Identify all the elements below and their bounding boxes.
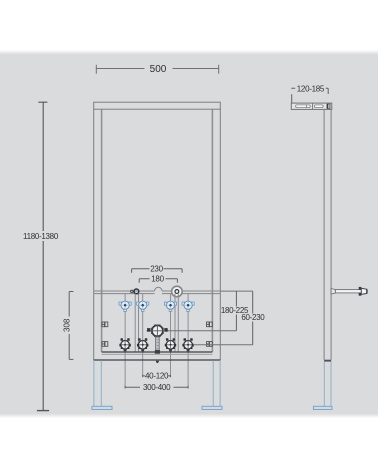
leader line rod3 <box>170 294 172 376</box>
small circle on mid rail <box>131 290 134 293</box>
dim 308 <box>69 292 73 360</box>
side bracket <box>291 103 332 109</box>
frame right side rail <box>212 109 220 360</box>
left strut <box>135 294 138 352</box>
dim 230 <box>132 269 183 273</box>
dim 120-185 <box>291 88 328 103</box>
svg-text:308: 308 <box>62 318 71 332</box>
front left foot <box>92 406 112 409</box>
pipe bump on mid rail <box>155 287 162 291</box>
anchor rod 4 <box>182 338 193 351</box>
frame left side rail <box>94 109 102 360</box>
dim 60-230 vertical <box>252 291 254 345</box>
rail clip BB right row1 <box>207 322 213 327</box>
svg-text:300-400: 300-400 <box>143 383 171 392</box>
clamp centerline to right dim <box>167 330 237 332</box>
dim 300-400 <box>125 386 188 389</box>
front right foot <box>202 406 222 409</box>
dim 40-120 <box>143 375 171 378</box>
dim 500 <box>96 65 218 74</box>
rod row line to right dim <box>193 344 253 346</box>
mid rail <box>94 287 221 293</box>
stem tip below bar <box>156 361 159 364</box>
leader line rod1 <box>124 294 126 388</box>
svg-text:230: 230 <box>150 265 163 274</box>
dim 180 <box>139 279 177 283</box>
svg-text:60-230: 60-230 <box>241 313 265 322</box>
water fitting 2 <box>137 301 149 311</box>
side post <box>324 109 331 359</box>
front right leg <box>213 360 220 406</box>
side foot <box>313 406 332 409</box>
side wall rod <box>331 287 367 296</box>
leader line rod4 <box>187 294 189 388</box>
clamp centerline left stub <box>147 330 152 332</box>
water fitting 4 <box>182 301 194 311</box>
ring fitting on mid rail <box>172 286 183 297</box>
rail extension line to side dims <box>220 290 252 292</box>
leader line rod2 <box>142 294 144 376</box>
frame top rail <box>94 102 221 109</box>
front left leg <box>94 360 101 406</box>
water fitting 3 <box>164 301 176 311</box>
gray background band <box>0 50 378 418</box>
dark circle on mid rail <box>134 289 139 294</box>
rail clip BB left row2 <box>102 342 108 347</box>
svg-text:40-120: 40-120 <box>145 372 169 381</box>
side post dark band <box>324 360 331 362</box>
bottom bar <box>94 352 221 360</box>
rail clip BB right row2 <box>207 342 213 347</box>
svg-text:1180-1380: 1180-1380 <box>23 232 59 241</box>
dim 180-225 vertical <box>235 291 237 331</box>
water fitting 1 <box>119 301 131 311</box>
right strut <box>175 294 178 352</box>
rail clip BB left row1 <box>102 322 108 327</box>
anchor rod 3 <box>165 338 176 351</box>
dim 1180-1380 <box>37 102 49 410</box>
pipe clamp U1 <box>147 324 168 337</box>
svg-text:180: 180 <box>151 275 164 284</box>
anchor rod 2 <box>137 338 148 351</box>
anchor rod 1 <box>119 338 130 351</box>
svg-text:500: 500 <box>150 64 167 75</box>
svg-text:120-185: 120-185 <box>297 84 325 93</box>
side leg <box>324 362 331 407</box>
clamp stem <box>155 337 160 354</box>
